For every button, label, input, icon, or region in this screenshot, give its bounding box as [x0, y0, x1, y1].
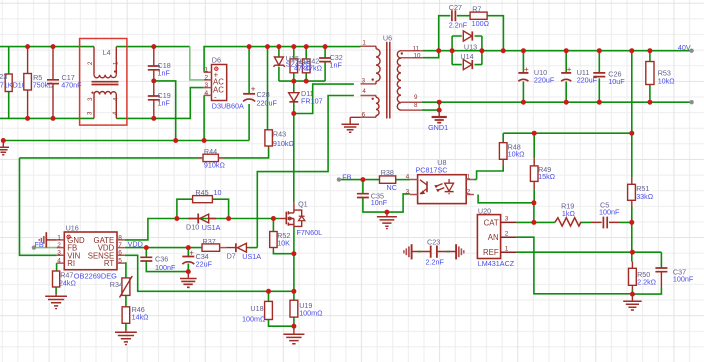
svg-text:R34: R34: [110, 280, 123, 289]
wire Q1 source down to sense node: [293, 226, 295, 291]
ground (primary DC-): [0, 141, 9, 155]
wire U8 pin2 to node: [478, 195, 534, 203]
varistor R23 471KD10 (clipped at left edge): [0, 47, 26, 119]
wire top AC rail mid: [116, 46, 190, 48]
wire R52 bottom to source node: [273, 251, 294, 254]
ground below C36 C34: [180, 272, 197, 288]
svg-text:PC817SC: PC817SC: [416, 165, 448, 174]
wire C35 branch: [363, 180, 410, 213]
svg-text:R7: R7: [472, 4, 481, 13]
wire pin8 riser: [422, 102, 439, 110]
wire FB to R38: [339, 179, 380, 181]
svg-text:R44: R44: [204, 147, 217, 156]
resistor R19 1kΩ (zigzag): [555, 202, 581, 226]
wire FB stub at U16 (light): [34, 247, 57, 249]
resistor R37: [202, 237, 226, 251]
svg-text:100mΩ: 100mΩ: [242, 315, 266, 324]
capacitor C17 470nF: [47, 47, 82, 119]
svg-text:Q1: Q1: [298, 200, 308, 209]
resistor R43 910kΩ: [265, 130, 295, 149]
optocoupler U8 PC817SC: [406, 158, 474, 204]
ground below R50: [623, 294, 641, 310]
core: [387, 42, 390, 119]
wire R48 R49 feed line: [503, 132, 632, 134]
svg-text:R37: R37: [203, 237, 216, 246]
diode D7 US1A: [226, 243, 261, 261]
LED inside: [448, 179, 450, 194]
svg-text:2.2nF: 2.2nF: [449, 21, 468, 30]
wire C28 top lead: [248, 47, 250, 94]
capacitor C5 100nF: [591, 200, 620, 228]
svg-text:10K: 10K: [277, 238, 290, 247]
svg-text:AN: AN: [488, 233, 499, 242]
shunt regulator U20 LM431ACZ: [477, 206, 516, 268]
svg-text:8: 8: [118, 234, 122, 241]
svg-text:2.2kΩ: 2.2kΩ: [637, 278, 657, 287]
svg-text:10: 10: [414, 53, 421, 60]
capacitor U10 220uF (electrolytic): [518, 65, 554, 85]
wire R47 to ground: [55, 287, 57, 294]
svg-text:24kΩ: 24kΩ: [59, 279, 77, 288]
wire left riser down to U16 VIN: [20, 158, 57, 255]
ground below C35: [377, 212, 397, 229]
core lines: [92, 82, 119, 85]
ground below U18 U19: [283, 330, 304, 344]
svg-text:1: 1: [362, 39, 366, 46]
svg-text:R43: R43: [273, 130, 286, 139]
junction dots secondary: [436, 48, 441, 53]
wire DC- rail with ground: [3, 140, 249, 142]
diode U13: [463, 31, 477, 51]
ground bars on U16 GND pin: [39, 232, 56, 247]
svg-text:F7N60L: F7N60L: [297, 228, 323, 237]
svg-text:1kΩ: 1kΩ: [562, 209, 576, 218]
svg-text:+: +: [567, 65, 572, 74]
ground below R47: [45, 294, 67, 309]
svg-text:10nF: 10nF: [371, 198, 388, 207]
svg-text:100nF: 100nF: [673, 275, 694, 284]
wire U8 pin1 riser: [474, 179, 477, 181]
svg-text:8: 8: [414, 102, 418, 109]
svg-text:4: 4: [205, 90, 209, 97]
svg-text:US1A: US1A: [202, 223, 221, 232]
primary winding pins 1-3: [361, 46, 377, 84]
svg-text:9: 9: [414, 94, 418, 101]
wire U11 branch: [565, 51, 567, 102]
svg-text:2: 2: [505, 230, 509, 237]
wire U10 branch: [522, 51, 524, 102]
wire U13 U14 brackets: [452, 36, 482, 65]
svg-text:GND1: GND1: [428, 123, 448, 132]
resistor R44 910kΩ: [197, 147, 225, 170]
svg-text:33kΩ: 33kΩ: [636, 192, 654, 201]
capacitor C34 22uF (electrolytic): [182, 249, 212, 269]
op-amp U16 OB2269DEG controller IC: [57, 224, 125, 281]
wire top AC rail left: [0, 46, 94, 48]
wire C34 branch: [187, 248, 189, 272]
wire pin10 riser: [423, 51, 439, 58]
wire C26 branch: [598, 51, 600, 102]
wire rail to R43: [267, 47, 269, 130]
svg-text:10kΩ: 10kΩ: [658, 76, 676, 85]
node 0V port: [689, 100, 693, 104]
svg-text:910kΩ: 910kΩ: [204, 161, 226, 170]
svg-text:14kΩ: 14kΩ: [132, 312, 150, 321]
transistor Q1 F7N60L (N-MOSFET): [279, 200, 322, 237]
resistor R41 47kΩ: [290, 59, 298, 73]
resistor R7 100Ω: [470, 4, 489, 27]
wire secondary bottom rail: [422, 101, 692, 103]
diode D10 US1A: [186, 214, 221, 232]
svg-text:CAT: CAT: [484, 218, 499, 227]
wire R53 branch: [649, 51, 651, 102]
common-mode choke L4 (red frame): [80, 39, 127, 126]
resistor R52 10K: [270, 231, 291, 251]
node 40V port: [689, 49, 693, 53]
ground at transformer pin 6: [342, 117, 361, 132]
svg-text:471KD10: 471KD10: [0, 80, 26, 89]
svg-text:U14: U14: [460, 52, 473, 61]
wire AN line down and ground rail: [516, 237, 632, 294]
wire D6 pin4 to DC- rail: [203, 95, 205, 140]
capacitor C37 100nF: [655, 267, 693, 289]
svg-text:100nF: 100nF: [599, 207, 620, 216]
varistor-style resistor R34: [110, 276, 133, 298]
wire ground rail to C37: [632, 288, 661, 294]
resistor R46 14kΩ: [122, 305, 149, 324]
svg-text:5: 5: [118, 258, 122, 265]
wire RI to R47: [56, 263, 58, 271]
svg-text:U16: U16: [66, 224, 79, 233]
wire RT to R34: [125, 263, 126, 278]
svg-text:D3UB60A: D3UB60A: [212, 102, 244, 111]
svg-text:4: 4: [362, 88, 366, 95]
resistor R45 10: [193, 188, 222, 203]
wire R44 line from left riser to R43 bottom: [20, 157, 204, 159]
wire C37 top lead: [660, 252, 662, 266]
svg-text:OB2269DEG: OB2269DEG: [74, 271, 117, 280]
svg-text:VDD: VDD: [128, 240, 143, 249]
zener U15 SZ4585: [273, 57, 285, 67]
svg-text:R45: R45: [195, 188, 208, 197]
wire bottom neutral rail to D6 AC pin3: [116, 88, 204, 119]
svg-text:750kΩ: 750kΩ: [33, 80, 55, 89]
wire D7 to riser corner: [248, 247, 257, 249]
wire D11 node down to Q1 drain: [293, 114, 295, 203]
svg-text:1nF: 1nF: [330, 61, 343, 70]
svg-text:1: 1: [505, 245, 509, 252]
svg-text:47kΩ: 47kΩ: [305, 64, 323, 73]
svg-text:D7: D7: [227, 252, 236, 261]
diode U14: [460, 52, 473, 70]
transformer U6: [361, 34, 423, 119]
resistor R5 750kΩ: [24, 47, 54, 119]
svg-text:US1A: US1A: [242, 252, 261, 261]
wire node down to CAT line: [533, 203, 535, 223]
svg-text:1: 1: [205, 67, 209, 74]
wire R44 right to R43 bottom: [218, 149, 268, 158]
light green wires: [34, 47, 204, 248]
svg-text:U13: U13: [464, 42, 477, 51]
wire R52 top riser: [272, 219, 274, 232]
svg-text:3: 3: [205, 82, 209, 89]
resistor R51 33kΩ: [628, 178, 654, 207]
wire snubber bus: [279, 62, 325, 93]
svg-text:2: 2: [205, 74, 209, 81]
svg-text:RI: RI: [67, 259, 75, 268]
junction dots primary: [25, 44, 30, 49]
Y-capacitor C23 2.2nF with chassis ends: [404, 237, 464, 266]
svg-text:22uF: 22uF: [196, 259, 213, 268]
svg-text:100mΩ: 100mΩ: [299, 309, 323, 318]
wire SENSE line: [125, 255, 294, 291]
capacitor C19 1nF: [148, 81, 171, 119]
wire D11 cathode node to transformer pin3: [294, 84, 354, 113]
svg-text:11: 11: [413, 46, 420, 53]
capacitor C28 220uF (electrolytic): [243, 85, 277, 108]
wire CAT node down to R50 top: [631, 222, 633, 261]
node FB left port: [32, 245, 36, 249]
wire R50 bottom: [631, 289, 633, 294]
phototransistor: [426, 181, 428, 192]
resistor R49 15kΩ: [530, 158, 555, 189]
svg-text:100Ω: 100Ω: [472, 19, 490, 28]
svg-text:6: 6: [118, 250, 122, 257]
svg-text:7: 7: [118, 242, 122, 249]
svg-text:3: 3: [57, 250, 61, 257]
wire C28 bottom riser: [248, 104, 250, 141]
svg-text:U20: U20: [478, 206, 491, 215]
aux winding pins 4-6: [361, 96, 377, 118]
svg-text:10kΩ: 10kΩ: [508, 150, 526, 159]
svg-text:LM431ACZ: LM431ACZ: [478, 259, 515, 268]
svg-text:+: +: [189, 249, 194, 258]
wire R49 leads: [533, 133, 535, 203]
svg-text:10: 10: [214, 188, 222, 197]
bridge rectifier D6 D3UB60A: [204, 56, 244, 111]
wire VDD line: [125, 247, 202, 249]
open pin endpoints: [32, 49, 694, 250]
wire 40V rail: [423, 50, 692, 52]
svg-text:C23: C23: [427, 237, 440, 246]
sense resistor U19 100mΩ: [290, 300, 323, 317]
svg-text:3: 3: [505, 216, 509, 223]
svg-text:RT: RT: [104, 259, 114, 268]
wire R46 to ground: [125, 323, 127, 330]
capacitor C27 2.2nF: [449, 3, 468, 30]
capacitor C26 10uF: [593, 70, 625, 87]
svg-text:FR107: FR107: [301, 96, 323, 105]
wire bottom neutral rail left: [0, 117, 94, 119]
svg-text:2: 2: [57, 242, 61, 249]
wire C18/C19 midpoint to DC- rail: [154, 81, 176, 141]
svg-text:R38: R38: [381, 168, 394, 177]
resistor R53 10kΩ: [646, 62, 675, 86]
svg-text:D10: D10: [186, 223, 199, 232]
svg-text:2: 2: [467, 188, 471, 195]
svg-text:10uF: 10uF: [608, 77, 625, 86]
sense resistor U18 100mΩ: [242, 301, 272, 323]
lower winding: [94, 92, 116, 95]
wire C36 branch: [146, 248, 188, 272]
wire REF line: [516, 251, 661, 253]
wire 40V to divider column: [631, 51, 633, 178]
resistor R42 47kΩ: [302, 59, 310, 73]
wire CAT line: [516, 221, 631, 223]
svg-text:2.2nF: 2.2nF: [426, 257, 445, 266]
svg-text:1: 1: [467, 173, 471, 180]
resistor R50 2.2kΩ: [629, 262, 657, 290]
wire R45 bypass risers: [177, 199, 229, 218]
resistor R47 24kΩ: [53, 270, 77, 287]
ground below R46: [115, 330, 137, 345]
svg-text:NC: NC: [387, 183, 397, 192]
svg-text:D6: D6: [212, 56, 221, 65]
leads: [94, 47, 116, 119]
wire U15 top lead: [279, 47, 325, 59]
svg-text:+: +: [251, 85, 256, 94]
overlapping labels U15 R41 R42 C32: [286, 53, 343, 73]
svg-text:15kΩ: 15kΩ: [538, 172, 556, 181]
wire R34 to R46: [125, 295, 127, 306]
svg-text:1: 1: [57, 234, 61, 241]
svg-text:1nF: 1nF: [158, 98, 171, 107]
secondary winding pins 11 10 9 8: [401, 51, 423, 110]
wire DC+ rail (bridge + to transformer pin1): [204, 47, 360, 73]
svg-text:1nF: 1nF: [158, 68, 171, 77]
wire AC line drop to D6 pin2 (light): [190, 47, 204, 80]
svg-text:4: 4: [406, 173, 410, 180]
svg-text:3: 3: [362, 78, 366, 85]
svg-text:220uF: 220uF: [257, 99, 278, 108]
wire R51 bottom to CAT node: [631, 207, 633, 223]
svg-text:FB: FB: [342, 173, 351, 182]
upper winding: [94, 75, 116, 78]
WIRES-SECONDARY: [339, 16, 692, 294]
svg-text:+: +: [524, 65, 529, 74]
node FB right port: [337, 177, 341, 181]
svg-text:C27: C27: [449, 3, 462, 12]
svg-text:100nF: 100nF: [155, 263, 176, 272]
capacitor C32 1nF: [319, 58, 331, 62]
light arrows: [435, 184, 444, 191]
resistor R38 NC: [380, 168, 397, 192]
capacitor U11 220uF (electrolytic): [561, 65, 597, 85]
svg-text:4: 4: [57, 258, 61, 265]
diode D11 FR107: [289, 89, 323, 105]
wire snubber C27 R7 loop: [439, 16, 504, 51]
svg-text:FB: FB: [35, 240, 44, 249]
svg-text:-: -: [214, 93, 217, 102]
wire aux pin4 to D7 anode: [257, 96, 354, 248]
wire U18 U19 sense resistors: [269, 291, 294, 330]
resistor R48 10kΩ: [499, 142, 525, 166]
capacitor C18 1nF: [148, 47, 171, 81]
svg-text:L4: L4: [103, 48, 111, 57]
WIRES-PRIMARY: [0, 47, 361, 330]
power GND1 symbol: [428, 110, 448, 132]
svg-text:U18: U18: [250, 304, 263, 313]
svg-text:REF: REF: [483, 248, 499, 257]
svg-text:6: 6: [362, 111, 366, 118]
wire R38 to U8 pin4: [396, 179, 410, 181]
wire R48 leads: [477, 133, 504, 179]
wire gate line U16 GATE to Q1: [125, 219, 280, 240]
capacitor C35 10nF: [357, 192, 388, 207]
svg-text:910kΩ: 910kΩ: [273, 139, 295, 148]
svg-text:40V: 40V: [678, 43, 691, 52]
svg-text:220uF: 220uF: [534, 76, 555, 85]
capacitor C36 100nF: [140, 255, 176, 273]
svg-text:3: 3: [406, 188, 410, 195]
svg-text:U6: U6: [383, 34, 392, 43]
